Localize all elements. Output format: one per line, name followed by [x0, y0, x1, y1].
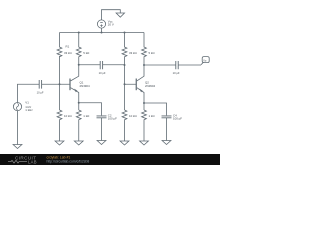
- svg-text:100 µF: 100 µF: [173, 117, 182, 121]
- svg-text:LAB: LAB: [28, 159, 37, 164]
- capacitor C4 100uF plates: [162, 116, 172, 118]
- voltage source Vcc: [97, 20, 105, 28]
- ground (under V1): [13, 145, 22, 149]
- node Vout balloon: [201, 57, 209, 65]
- wire emitter node down to RE2: [143, 103, 145, 110]
- svg-text:5 kΩ: 5 kΩ: [149, 51, 156, 55]
- svg-text:V1: V1: [25, 101, 29, 105]
- ground (under R2): [55, 141, 64, 145]
- svg-text:10 µF: 10 µF: [173, 71, 180, 75]
- svg-text:1 kΩ: 1 kΩ: [83, 114, 90, 118]
- ground (under C2): [97, 141, 106, 145]
- svg-text:http://circuitlab.com/c/fs2sb8: http://circuitlab.com/c/fs2sb8: [47, 160, 90, 164]
- svg-text:10 µF: 10 µF: [99, 71, 106, 75]
- resistor RE1 1k body: [76, 110, 81, 141]
- svg-text:10 µF: 10 µF: [37, 91, 44, 95]
- wire R1 bottom lead: [59, 56, 61, 84]
- wire top rail VCC: [60, 32, 145, 34]
- wire base node Q2 down to R4: [124, 84, 126, 110]
- wire C3 to base node Q2: [103, 64, 125, 66]
- transistor Q2: [136, 65, 144, 103]
- capacitor C3 10uF plates: [100, 61, 102, 69]
- resistor R3 33k body: [122, 33, 127, 66]
- resistor R2 10k body: [57, 110, 62, 141]
- resistor R1 33k body: [57, 33, 62, 57]
- svg-text:10 kΩ: 10 kΩ: [64, 114, 72, 118]
- wire emitter node down to RE1: [78, 103, 80, 110]
- svg-text:2N3904: 2N3904: [145, 84, 156, 88]
- wire base node down to R2: [59, 84, 61, 110]
- wire emitter Q2 to C4: [144, 103, 167, 115]
- svg-text:5 kΩ: 5 kΩ: [83, 51, 90, 55]
- resistor RC1 5k body: [76, 33, 81, 65]
- resistor RC2 5k body: [142, 33, 147, 66]
- transistor Q1: [70, 65, 79, 103]
- capacitor C5 10uF plates: [176, 61, 178, 69]
- wire C4 to ground: [166, 118, 168, 141]
- wire Vcc top to ground flag: [102, 10, 121, 20]
- wire collector Q2 to C5: [144, 64, 176, 66]
- wire input V1 to C1: [18, 84, 40, 102]
- wire V1 bottom to ground: [17, 111, 19, 145]
- svg-text:R1: R1: [66, 45, 70, 49]
- ground (top right): [116, 13, 124, 17]
- wire C2 to ground: [101, 118, 103, 141]
- source V1: [13, 103, 21, 111]
- svg-text:2N3904: 2N3904: [80, 84, 91, 88]
- resistor R4 10k body: [122, 110, 127, 141]
- svg-text:33 kΩ: 33 kΩ: [64, 51, 72, 55]
- capacitor C1 10uF plates: [39, 80, 41, 89]
- ground (under C4): [162, 141, 171, 145]
- svg-text:100 µF: 100 µF: [108, 117, 117, 121]
- wire C1 to base node Q1: [42, 83, 70, 85]
- wire emitter Q1 to C2: [79, 103, 102, 116]
- svg-text:1 kΩ: 1 kΩ: [149, 114, 156, 118]
- ground (under RE2): [140, 141, 149, 145]
- ground (under RE1): [74, 141, 83, 145]
- footer bar: [0, 154, 220, 165]
- wire Vcc bottom to rail: [101, 28, 103, 32]
- svg-text:20 V: 20 V: [108, 23, 114, 27]
- resistor RE2 1k body: [142, 110, 147, 141]
- svg-text:33 kΩ: 33 kΩ: [129, 51, 137, 55]
- svg-text:1 kHz: 1 kHz: [25, 108, 33, 112]
- svg-text:10 kΩ: 10 kΩ: [129, 114, 137, 118]
- node junction dots: [59, 32, 146, 105]
- capacitor C2 100uF plates: [97, 116, 107, 118]
- wire collector node to C3: [79, 64, 100, 66]
- CircuitLab logo: [8, 156, 37, 165]
- ground (under R4): [120, 141, 129, 145]
- wire base node Q2 vertical: [125, 65, 137, 84]
- wire C5 to output flag: [178, 64, 201, 66]
